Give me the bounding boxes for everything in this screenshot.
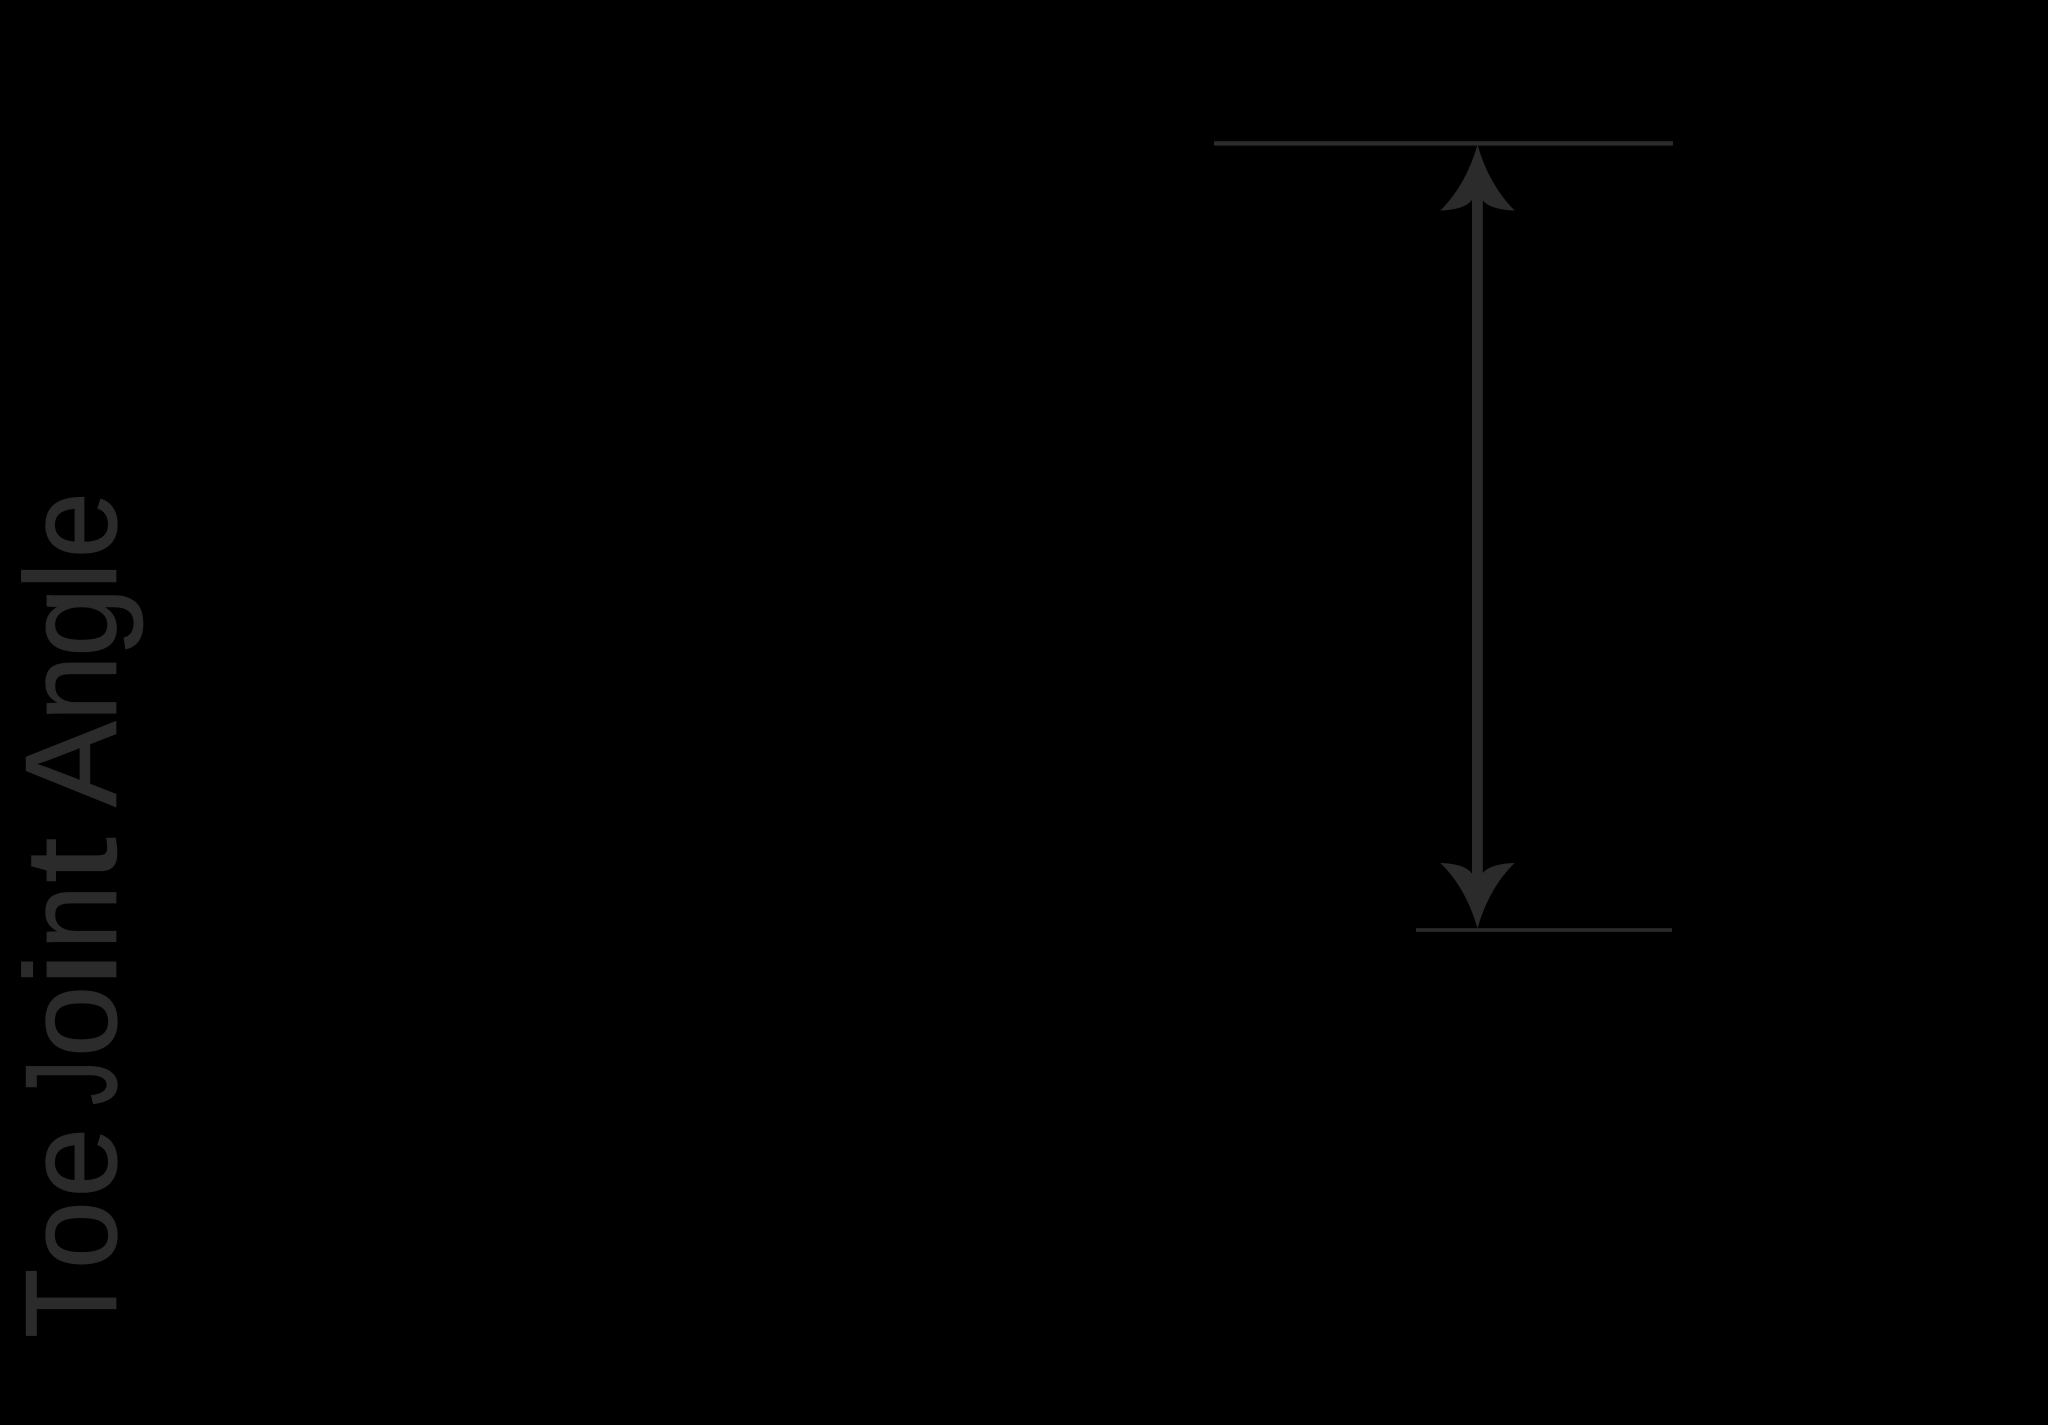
arrowhead top bbox=[1440, 145, 1514, 211]
arrowhead bottom bbox=[1440, 863, 1514, 928]
bottom reference line bbox=[1416, 928, 1672, 932]
svg-text:ToeJointAngle: ToeJointAngle bbox=[0, 492, 144, 1338]
top reference line bbox=[1214, 141, 1673, 145]
arrow shaft bbox=[1472, 200, 1483, 875]
